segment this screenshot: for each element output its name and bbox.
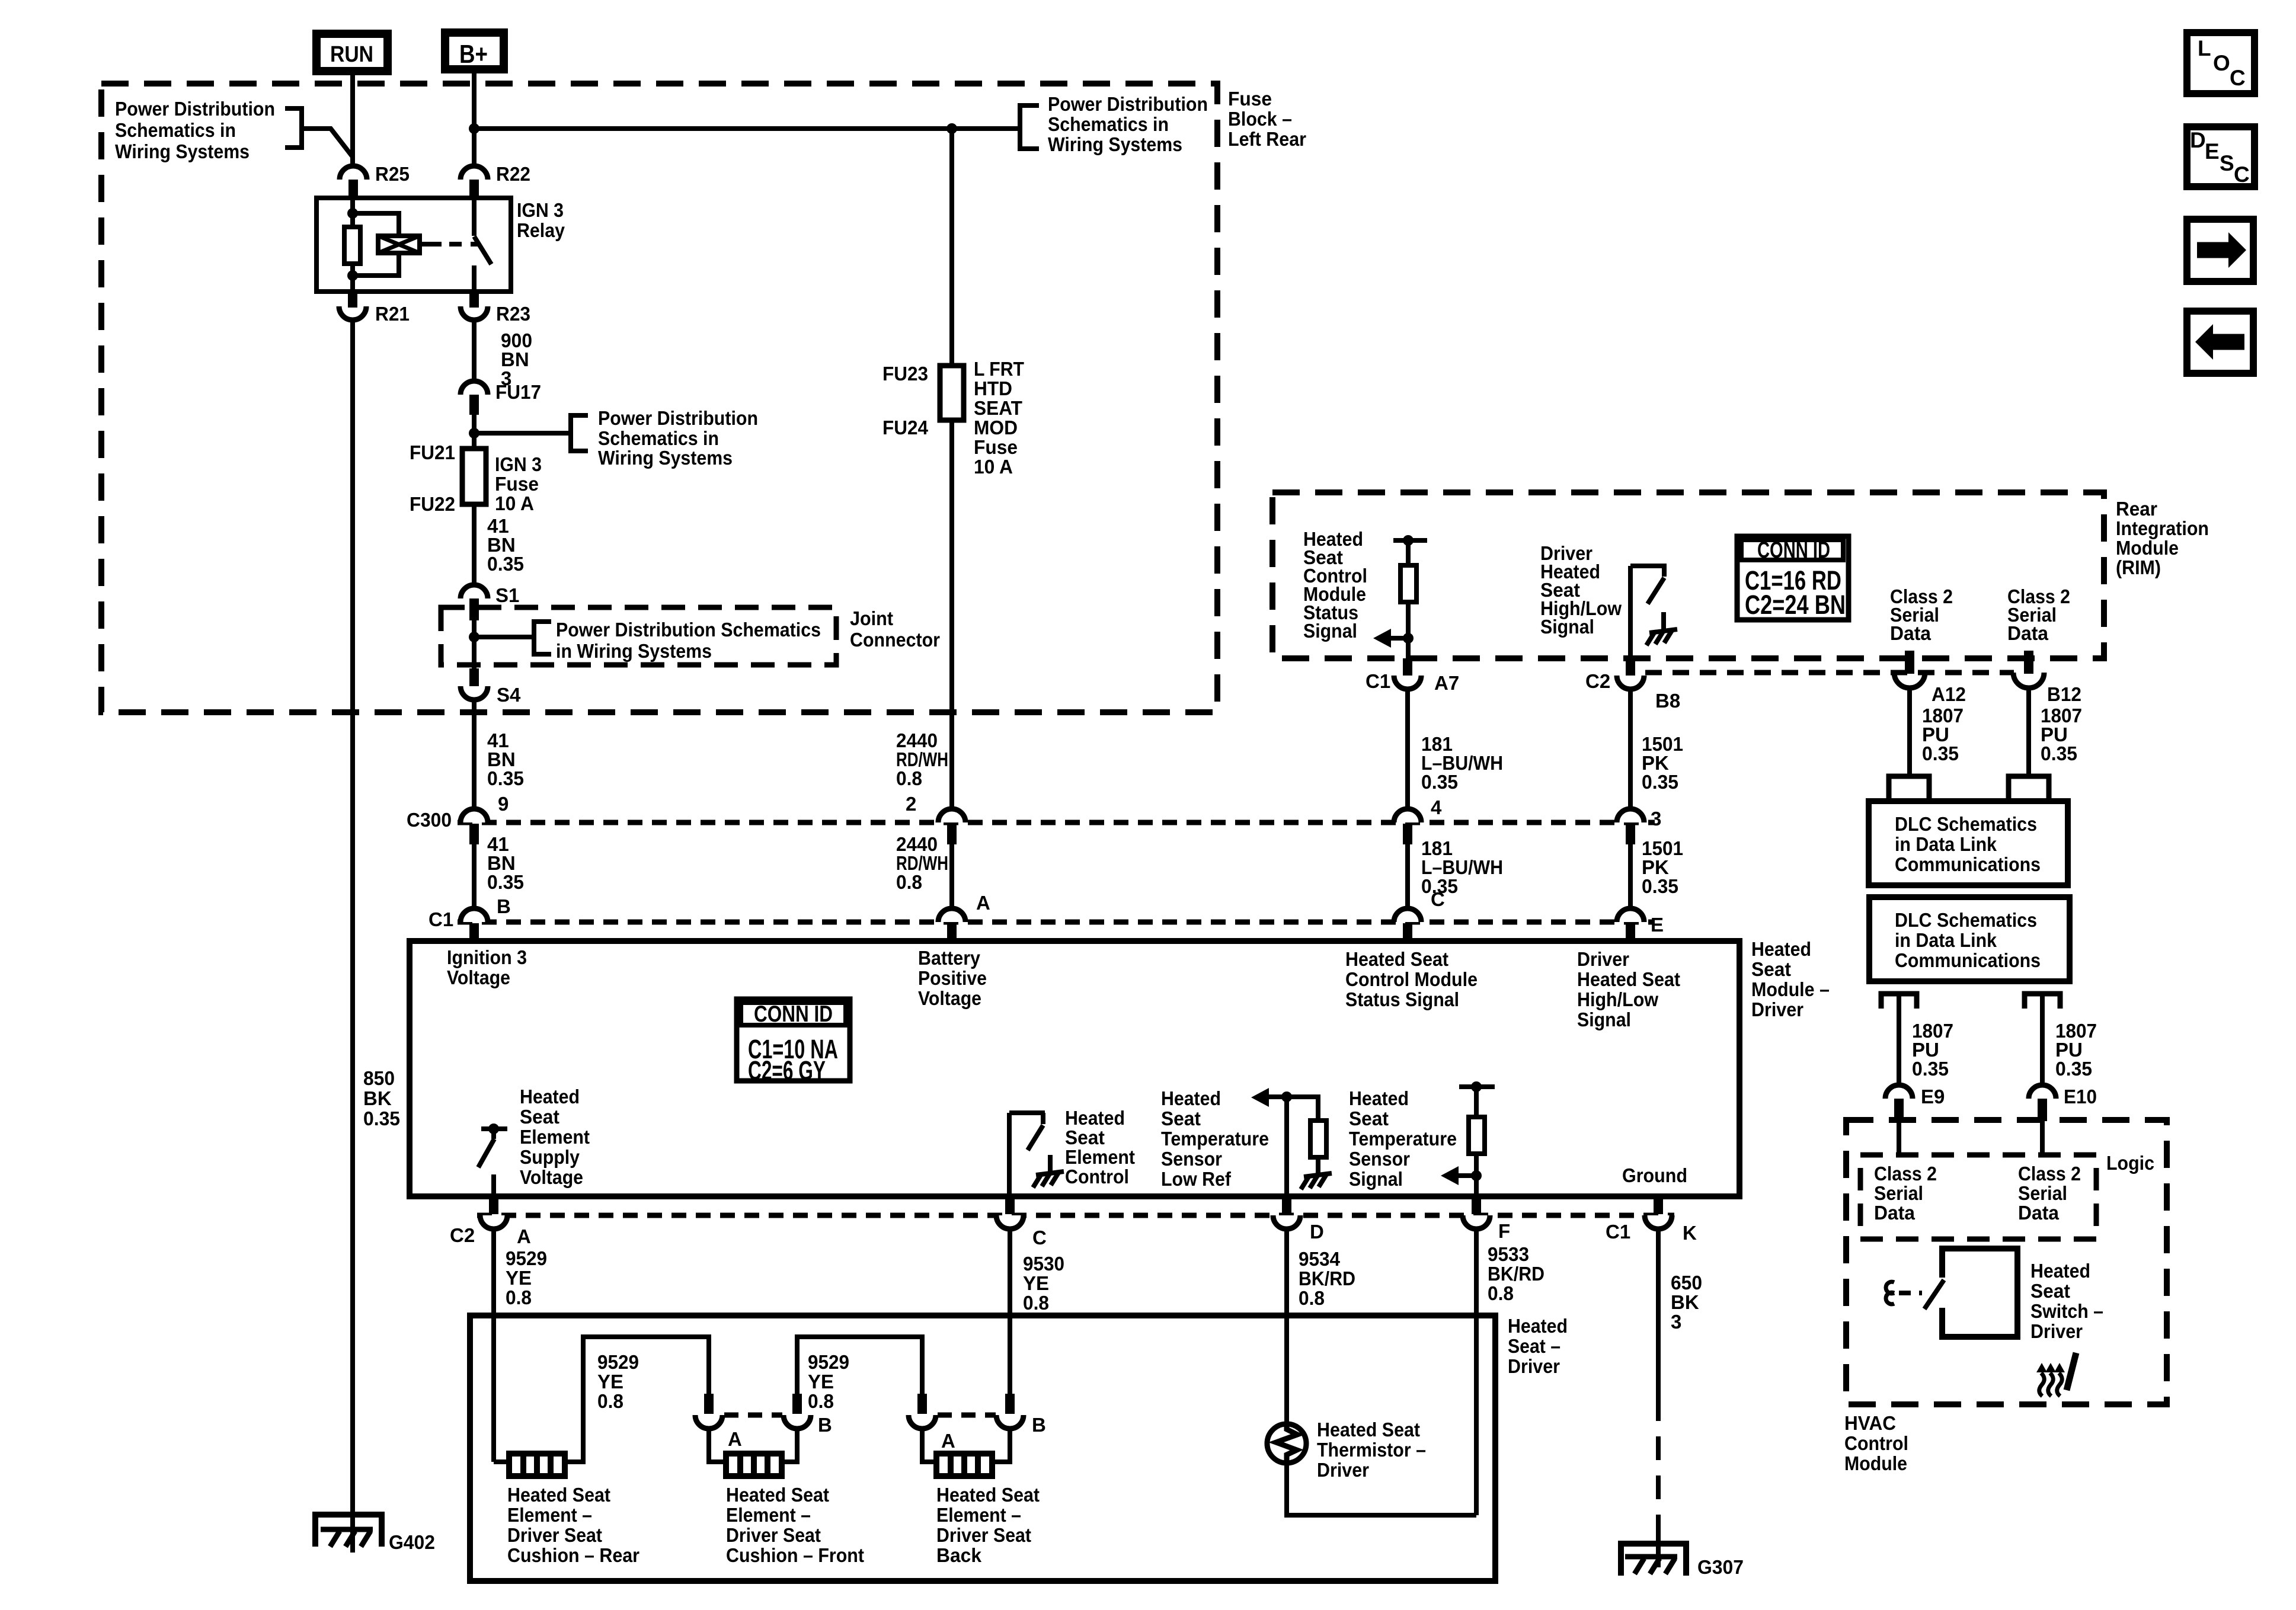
label 9529 YE 0.8 (run 2)	[808, 1351, 849, 1412]
svg-text:Joint: Joint	[850, 607, 893, 629]
ground G307	[1621, 1544, 1744, 1578]
svg-text:Voltage: Voltage	[520, 1166, 583, 1188]
thermistor heated seat driver	[1267, 1424, 1306, 1463]
svg-text:Back: Back	[936, 1544, 982, 1566]
svg-text:10 A: 10 A	[495, 492, 534, 514]
svg-text:Heated: Heated	[1065, 1107, 1125, 1129]
svg-text:Heated: Heated	[1751, 938, 1811, 960]
svg-text:R23: R23	[496, 303, 530, 325]
svg-text:0.35: 0.35	[2041, 742, 2077, 764]
callout bracket at B+ branch	[1020, 105, 1039, 149]
svg-text:R22: R22	[496, 163, 530, 185]
logic dashed box	[1860, 1155, 2096, 1239]
label class 2 serial data (RIM left)	[1890, 585, 1953, 644]
svg-text:Heated Seat: Heated Seat	[1345, 948, 1448, 970]
label 650 BK 3	[1671, 1272, 1702, 1333]
svg-text:Data: Data	[1874, 1202, 1916, 1224]
svg-text:850: 850	[363, 1067, 395, 1089]
label heated seat switch driver	[2030, 1260, 2103, 1342]
svg-text:Driver: Driver	[1508, 1355, 1560, 1377]
svg-text:Seat: Seat	[1065, 1126, 1105, 1148]
svg-text:MOD: MOD	[974, 417, 1018, 438]
svg-text:C1: C1	[428, 908, 453, 930]
node RUN	[316, 34, 388, 71]
svg-text:0.8: 0.8	[1023, 1292, 1049, 1314]
label 2440 RD/WH 0.8 (lower)	[896, 833, 948, 893]
label heated seat driver	[1508, 1315, 1568, 1377]
svg-text:Seat: Seat	[2030, 1280, 2070, 1302]
svg-text:FU21: FU21	[410, 441, 455, 463]
svg-text:Heated Seat: Heated Seat	[726, 1484, 829, 1506]
svg-text:B+: B+	[459, 40, 488, 69]
fuse block label	[1228, 88, 1306, 150]
svg-text:Ignition 3: Ignition 3	[447, 946, 527, 968]
svg-text:R25: R25	[375, 163, 410, 185]
label driver heated seat high/low signal (module)	[1577, 948, 1680, 1030]
ground RIM switch chassis	[1646, 612, 1677, 645]
label 2440 RD/WH 0.8 (upper)	[896, 729, 948, 789]
svg-text:L: L	[2198, 36, 2211, 60]
heated seat icon	[2036, 1353, 2076, 1396]
svg-text:S: S	[2220, 151, 2234, 175]
svg-text:in Data Link: in Data Link	[1895, 833, 1997, 855]
resistor sensor signal	[1459, 1081, 1495, 1196]
svg-text:9533: 9533	[1488, 1243, 1529, 1265]
wire relay coil parallel loop	[353, 213, 399, 276]
svg-text:C2=24 BN: C2=24 BN	[1745, 590, 1846, 620]
resistor relay coil resistance	[344, 227, 360, 264]
svg-text:BK/RD: BK/RD	[1488, 1263, 1544, 1285]
connector B12	[2013, 651, 2081, 705]
connector R23	[461, 292, 530, 325]
svg-text:C: C	[2234, 162, 2250, 187]
ground element control chassis	[1033, 1155, 1064, 1188]
label 181 L-BU/WH 0.35 (lower)	[1421, 837, 1503, 897]
wire RUN branch down to ground G402	[350, 320, 355, 1553]
svg-text:Cushion – Rear: Cushion – Rear	[507, 1544, 639, 1566]
svg-text:Driver: Driver	[1317, 1459, 1369, 1481]
svg-text:0.35: 0.35	[2055, 1058, 2092, 1080]
junction joint connector tap	[469, 632, 479, 642]
svg-text:K: K	[1683, 1222, 1697, 1244]
resistor low ref	[1287, 1097, 1326, 1163]
label heated seat element supply voltage	[520, 1086, 590, 1188]
junction FU23 tap	[946, 123, 957, 134]
svg-text:FU17: FU17	[495, 381, 541, 403]
svg-text:Class 2: Class 2	[2018, 1163, 2081, 1185]
half connector B12 to DLC	[2009, 776, 2049, 801]
connector line C1	[458, 920, 1655, 925]
connector C2 pin A	[480, 1196, 531, 1247]
svg-text:Voltage: Voltage	[918, 987, 981, 1009]
connector element 2 pin B	[784, 1394, 832, 1436]
label 1807 PU 0.35 (E10)	[2055, 1020, 2097, 1080]
svg-text:C: C	[2230, 66, 2246, 90]
svg-text:HTD: HTD	[974, 377, 1012, 399]
callout bracket PD mid	[571, 415, 588, 451]
svg-text:R21: R21	[375, 303, 410, 325]
svg-text:D: D	[1310, 1221, 1324, 1243]
half connector A12 to DLC	[1889, 776, 1929, 801]
label class 2 serial data (logic left)	[1874, 1163, 1937, 1224]
svg-text:G307: G307	[1697, 1556, 1744, 1578]
svg-text:Heated: Heated	[1508, 1315, 1568, 1337]
connector C300 pin 4	[1394, 809, 1421, 844]
label 900 BN 3	[501, 329, 532, 389]
wire A12 to DLC	[1907, 688, 1912, 776]
wire C300 to C1 (181 L-BU/WH)	[1405, 844, 1410, 910]
svg-text:B12: B12	[2047, 683, 2081, 705]
heated seat element driver seat cushion front	[726, 1454, 782, 1476]
svg-text:BK: BK	[1671, 1291, 1699, 1313]
svg-text:Seat: Seat	[520, 1106, 559, 1128]
wire battery feed to fuse FU23	[949, 129, 954, 366]
svg-text:Thermistor –: Thermistor –	[1317, 1439, 1426, 1461]
wire DLC to E10	[2040, 994, 2045, 1086]
wire pin A to element 1	[494, 1459, 509, 1464]
svg-text:Module: Module	[1844, 1452, 1907, 1474]
svg-text:Fuse: Fuse	[495, 473, 539, 495]
svg-text:Temperature: Temperature	[1161, 1128, 1269, 1150]
label heated seat thermistor driver	[1317, 1419, 1426, 1481]
ground low ref chassis	[1301, 1157, 1332, 1189]
svg-text:10 A: 10 A	[974, 456, 1013, 478]
svg-text:Heated: Heated	[520, 1086, 580, 1108]
CONN ID box (module)	[737, 999, 850, 1086]
half connector DLC to E10	[2025, 994, 2060, 1009]
callout bracket joint	[534, 622, 551, 654]
svg-text:(RIM): (RIM)	[2116, 556, 2161, 578]
label 9530 YE 0.8	[1023, 1253, 1064, 1314]
wire thermistor loop to pin F	[1287, 1462, 1476, 1515]
arrow sensor signal	[1441, 1166, 1482, 1185]
svg-text:2: 2	[906, 793, 916, 815]
wire element 2 B up to run 2	[797, 1337, 922, 1394]
svg-text:YE: YE	[808, 1371, 834, 1393]
LOC box	[2187, 33, 2255, 94]
ground G402	[315, 1515, 435, 1553]
svg-text:0.8: 0.8	[896, 767, 922, 789]
switch RIM high/low	[1630, 566, 1667, 658]
svg-text:4: 4	[1431, 796, 1442, 818]
label 41 BN 0.35 (S4 to C300)	[487, 729, 524, 789]
svg-text:Seat: Seat	[1161, 1108, 1201, 1129]
label heated seat control module status signal (module)	[1345, 948, 1478, 1010]
svg-text:D: D	[2190, 128, 2206, 152]
callout bracket to R25	[285, 108, 353, 158]
label 41 BN 0.35 (C300 to C1)	[487, 833, 524, 893]
svg-text:9529: 9529	[808, 1351, 849, 1373]
wire DLC to E9	[1897, 994, 1901, 1086]
label 181 L-BU/WH 0.35 (upper)	[1421, 733, 1503, 793]
svg-text:E: E	[1651, 914, 1664, 936]
relay actuating dashes	[420, 242, 442, 247]
svg-text:FU24: FU24	[882, 417, 929, 438]
connector C300 pin 3	[1617, 809, 1644, 844]
connector FU17	[461, 381, 541, 415]
svg-text:C2: C2	[450, 1224, 475, 1246]
wire pin D to thermistor (9534 BK/RD)	[1284, 1229, 1289, 1425]
svg-text:Schematics in: Schematics in	[115, 119, 236, 141]
svg-text:Voltage: Voltage	[447, 966, 510, 988]
svg-text:Communications: Communications	[1895, 949, 2041, 971]
svg-text:Heated: Heated	[1161, 1087, 1221, 1109]
wire B12 to DLC	[2026, 688, 2031, 776]
svg-text:A: A	[517, 1225, 531, 1247]
label battery positive voltage	[918, 947, 987, 1009]
svg-text:A12: A12	[1932, 683, 1966, 705]
connector E9	[1885, 1085, 1945, 1121]
svg-text:9530: 9530	[1023, 1253, 1064, 1275]
svg-text:9529: 9529	[597, 1351, 639, 1373]
label power distribution schematics (mid)	[598, 407, 758, 469]
svg-text:Low Ref: Low Ref	[1161, 1168, 1232, 1190]
svg-text:B8: B8	[1655, 690, 1680, 712]
svg-text:Element –: Element –	[726, 1504, 811, 1526]
wire A7 to C300 (181 L-BU/WH)	[1405, 689, 1410, 810]
svg-text:Signal: Signal	[1577, 1009, 1631, 1030]
svg-text:Data: Data	[2018, 1202, 2060, 1224]
svg-text:S4: S4	[497, 684, 521, 706]
svg-text:Serial: Serial	[1874, 1182, 1923, 1204]
relay IGN 3 box	[316, 198, 511, 292]
label driver heated seat high/low signal (RIM)	[1540, 542, 1622, 638]
svg-text:Positive: Positive	[918, 967, 987, 989]
svg-text:F: F	[1498, 1220, 1510, 1242]
junction FU17 branch	[469, 428, 479, 438]
svg-text:RUN: RUN	[330, 42, 373, 67]
label element seat back	[936, 1484, 1040, 1566]
wire pin A down (9529 YE)	[491, 1229, 496, 1462]
svg-text:E: E	[2205, 139, 2220, 164]
connector C2 pin F	[1463, 1196, 1510, 1242]
svg-text:Module –: Module –	[1751, 978, 1830, 1000]
heated seat element driver seat back	[936, 1454, 992, 1476]
label 9533 BK/RD 0.8	[1488, 1243, 1544, 1304]
svg-text:Cushion – Front: Cushion – Front	[726, 1544, 864, 1566]
switch element control	[1009, 1113, 1045, 1196]
svg-text:Driver Seat: Driver Seat	[936, 1524, 1031, 1546]
svg-text:B: B	[1032, 1414, 1046, 1436]
label element cushion front	[726, 1484, 864, 1566]
svg-text:YE: YE	[1023, 1272, 1049, 1294]
svg-text:in Data Link: in Data Link	[1895, 929, 1997, 951]
wire fuse to S1	[472, 504, 477, 587]
label rear integration module (RIM)	[2116, 498, 2209, 578]
svg-text:A7: A7	[1434, 672, 1459, 694]
connector C1 pin C	[1394, 908, 1421, 941]
svg-text:Block –: Block –	[1228, 108, 1292, 130]
wire low ref to pin D	[1284, 1097, 1289, 1196]
svg-text:Class 2: Class 2	[1874, 1163, 1937, 1185]
joint connector dashed box	[441, 607, 836, 665]
wire RUN to R25	[350, 71, 355, 168]
svg-text:0.8: 0.8	[597, 1390, 623, 1412]
svg-text:C: C	[1431, 888, 1445, 910]
svg-text:BK: BK	[363, 1087, 392, 1109]
connector S4	[461, 668, 521, 706]
svg-text:S1: S1	[495, 584, 519, 606]
label HVAC control module	[1844, 1412, 1908, 1474]
svg-text:E10: E10	[2064, 1086, 2097, 1108]
svg-text:B: B	[497, 895, 511, 917]
rear integration module dashed box	[1272, 492, 2104, 658]
svg-text:Heated: Heated	[2030, 1260, 2090, 1282]
svg-text:Fuse: Fuse	[1228, 88, 1272, 110]
wire FU17 to fuse	[472, 415, 477, 449]
label 1501 PK 0.35 (lower)	[1642, 837, 1683, 897]
connector line C300	[458, 820, 1655, 825]
connector A12	[1894, 651, 1966, 705]
svg-text:FU22: FU22	[410, 493, 455, 515]
svg-text:DLC Schematics: DLC Schematics	[1895, 909, 2037, 931]
label joint connector	[850, 607, 940, 651]
label 1807 PU 0.35 (E9)	[1912, 1020, 1953, 1080]
svg-text:Control Module: Control Module	[1345, 968, 1478, 990]
connector C2 pin C	[996, 1196, 1047, 1249]
label power distribution schematics (joint)	[556, 619, 821, 662]
svg-text:Element: Element	[1065, 1146, 1135, 1168]
svg-text:E9: E9	[1921, 1086, 1945, 1108]
svg-text:0.35: 0.35	[1642, 771, 1678, 793]
svg-text:Sensor: Sensor	[1349, 1148, 1410, 1170]
svg-text:Seat: Seat	[1349, 1108, 1389, 1129]
svg-text:Ground: Ground	[1622, 1164, 1687, 1186]
svg-text:0.35: 0.35	[1421, 771, 1458, 793]
junction B+ branch	[469, 123, 479, 134]
wire branch to PD bracket	[474, 431, 571, 436]
wire A arc to element 3	[922, 1429, 936, 1462]
label element cushion rear	[507, 1484, 639, 1566]
label power distribution schematics (top right)	[1048, 93, 1208, 155]
svg-text:Driver: Driver	[1751, 998, 1803, 1020]
svg-text:IGN 3: IGN 3	[495, 453, 542, 475]
wire B8 to C300 (1501 PK)	[1628, 689, 1633, 810]
svg-text:Signal: Signal	[1303, 620, 1357, 642]
svg-text:C: C	[1032, 1227, 1047, 1249]
label 9529 YE 0.8 (pin A)	[506, 1247, 547, 1308]
svg-text:Power Distribution: Power Distribution	[115, 98, 275, 120]
svg-text:in Wiring Systems: in Wiring Systems	[556, 640, 712, 662]
svg-text:HVAC: HVAC	[1844, 1412, 1896, 1434]
svg-text:Module: Module	[2116, 537, 2179, 559]
wire pin C down (9530 YE)	[1008, 1229, 1012, 1397]
svg-text:Connector: Connector	[850, 629, 940, 651]
label 9529 YE 0.8 (run 1)	[597, 1351, 639, 1412]
svg-text:0.35: 0.35	[1912, 1058, 1949, 1080]
label 1807 PU 0.35 (B12)	[2041, 705, 2082, 764]
connector C1 pin A7	[1366, 658, 1459, 694]
svg-text:G402: G402	[389, 1531, 435, 1553]
svg-text:650: 650	[1671, 1272, 1702, 1294]
label L FRT HTD SEAT MOD Fuse 10 A	[974, 358, 1024, 478]
svg-text:YE: YE	[597, 1371, 623, 1393]
svg-text:Schematics in: Schematics in	[598, 427, 719, 449]
HVAC control module dashed box	[1846, 1120, 2167, 1404]
svg-text:Seat: Seat	[1751, 958, 1791, 980]
wire R23 to FU17	[472, 320, 477, 382]
svg-text:High/Low: High/Low	[1577, 988, 1658, 1010]
next arrow box	[2187, 219, 2253, 281]
svg-text:Heated Seat: Heated Seat	[1317, 1419, 1420, 1441]
relay coil branch wire	[350, 198, 355, 228]
connector C2 pin D	[1273, 1196, 1324, 1243]
svg-text:Wiring Systems: Wiring Systems	[1048, 133, 1182, 155]
connector element 3 pin B	[996, 1394, 1046, 1436]
switch element supply voltage	[478, 1124, 507, 1196]
svg-text:Supply: Supply	[520, 1146, 580, 1168]
label heated seat element control	[1065, 1107, 1135, 1188]
connector E10	[2029, 1085, 2097, 1121]
svg-text:0.8: 0.8	[1299, 1287, 1325, 1309]
connector C1 pin K	[1606, 1196, 1697, 1244]
label power distribution schematics (top left)	[115, 98, 275, 162]
svg-text:C1: C1	[1606, 1221, 1630, 1243]
svg-text:B: B	[818, 1414, 832, 1436]
relay switch	[474, 198, 491, 292]
connector C300 pin 2	[938, 809, 965, 844]
arrow low ref	[1251, 1088, 1292, 1107]
wire A arc to element 2	[709, 1429, 726, 1462]
svg-text:Signal: Signal	[1540, 616, 1594, 638]
svg-text:Temperature: Temperature	[1349, 1128, 1457, 1150]
svg-text:0.35: 0.35	[487, 767, 524, 789]
svg-text:Sensor: Sensor	[1161, 1148, 1222, 1170]
wire element 1 up to run 1	[565, 1337, 709, 1462]
svg-text:0.8: 0.8	[808, 1390, 834, 1412]
DLC schematics box 2	[1869, 897, 2070, 981]
svg-text:0.8: 0.8	[896, 871, 922, 893]
wire B+ branch to fuse FU23 feed	[474, 126, 1020, 131]
label class 2 serial data (logic right)	[2018, 1163, 2081, 1224]
connector S1	[461, 584, 519, 620]
wire pin F down (9533 BK/RD)	[1474, 1229, 1479, 1515]
connector C1 pin B	[461, 908, 488, 941]
svg-text:0.8: 0.8	[1488, 1282, 1514, 1304]
svg-text:SEAT: SEAT	[974, 397, 1022, 419]
label 1501 PK 0.35 (upper)	[1642, 733, 1683, 793]
label 850 BK 0.35	[363, 1067, 400, 1129]
svg-text:Data: Data	[2007, 622, 2049, 644]
connector C1 pin E	[1617, 908, 1644, 941]
svg-text:Heated Seat: Heated Seat	[936, 1484, 1040, 1506]
CONN ID box (RIM)	[1737, 536, 1849, 620]
svg-text:Relay: Relay	[517, 219, 565, 241]
label ignition 3 voltage	[447, 946, 527, 988]
DESC box	[2187, 127, 2255, 187]
label heated seat control module status signal (RIM)	[1303, 528, 1367, 642]
heated seat driver box	[470, 1315, 1495, 1581]
wire fuse FU24 to C300 (2440 RD/WH)	[949, 420, 954, 810]
svg-text:Wiring Systems: Wiring Systems	[598, 447, 733, 469]
wire pin K to ground	[1656, 1528, 1661, 1567]
svg-text:IGN 3: IGN 3	[517, 199, 564, 221]
inline connector dashes pair 1	[724, 1413, 782, 1418]
svg-text:Element –: Element –	[507, 1504, 592, 1526]
label heated seat module driver	[1751, 938, 1830, 1020]
svg-text:3: 3	[1651, 808, 1661, 830]
connector element 3 pin A	[909, 1394, 955, 1452]
wire E10 into logic	[2040, 1121, 2045, 1156]
svg-text:C2=6 GY: C2=6 GY	[748, 1055, 826, 1086]
svg-text:Data: Data	[1890, 622, 1932, 644]
wire pin K down (650 BK)	[1656, 1229, 1661, 1397]
DLC schematics box 1	[1869, 801, 2068, 885]
svg-text:Element: Element	[520, 1126, 590, 1148]
svg-text:Serial: Serial	[2018, 1182, 2067, 1204]
wire C300 to C1 (41 BN)	[472, 844, 477, 910]
svg-text:9534: 9534	[1299, 1248, 1341, 1270]
